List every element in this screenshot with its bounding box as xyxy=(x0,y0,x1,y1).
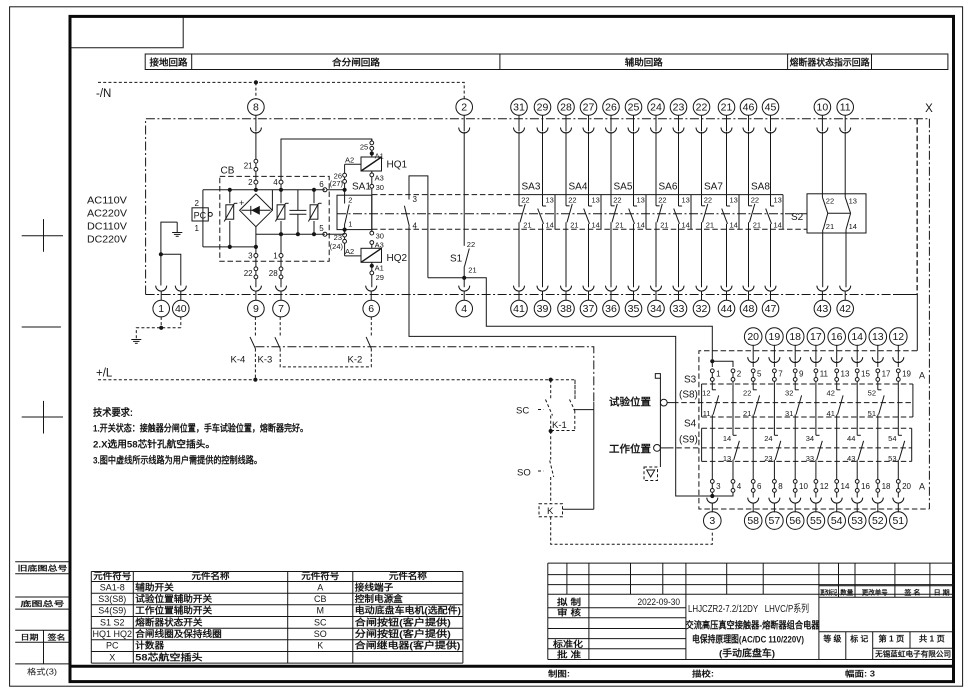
svg-text:25: 25 xyxy=(628,101,640,113)
svg-text:S1 S2: S1 S2 xyxy=(100,617,125,627)
holding coil HQ2 xyxy=(361,231,408,287)
terminal X:7 (plug pin) xyxy=(276,286,287,301)
terminal X:22 (plug pin) xyxy=(693,99,710,116)
relay contact K-4 xyxy=(231,317,256,380)
svg-text:31: 31 xyxy=(785,409,793,418)
terminal X:28 (plug pin) xyxy=(558,99,575,116)
svg-text:14: 14 xyxy=(682,221,690,230)
svg-text:PC: PC xyxy=(194,210,207,220)
svg-text:22: 22 xyxy=(743,389,751,398)
svg-text:21: 21 xyxy=(706,221,714,230)
net -/N bus xyxy=(96,82,464,100)
relay contact K-3 xyxy=(258,317,372,367)
svg-text:K-4: K-4 xyxy=(231,354,246,365)
pin 1 xyxy=(710,369,721,381)
svg-text:51: 51 xyxy=(868,409,876,418)
CB pin 2 xyxy=(248,178,258,190)
svg-text:辅助回路: 辅助回路 xyxy=(625,56,664,67)
CB pin 3 xyxy=(248,247,258,267)
junction on -/N bus xyxy=(254,80,258,84)
svg-text:2: 2 xyxy=(348,196,352,205)
svg-text:SA1: SA1 xyxy=(352,182,371,193)
wire K coil to relay line xyxy=(563,508,594,510)
pin 13 xyxy=(835,369,850,381)
control power box CB (dashed outline) xyxy=(220,176,329,261)
pin 9 xyxy=(793,369,804,381)
svg-text:AC220V: AC220V xyxy=(87,209,127,220)
svg-text:1: 1 xyxy=(348,220,352,229)
plug X boundary (dash-dot) xyxy=(925,103,933,509)
wire CB pin1 to terminal 7 xyxy=(280,279,282,287)
svg-text:SO: SO xyxy=(314,629,327,639)
net label supply voltages xyxy=(87,196,127,246)
svg-text:58: 58 xyxy=(747,515,759,527)
wire S1 node to matrix pins 1/2 (wire B) xyxy=(428,278,712,359)
CB pin 5 xyxy=(319,224,327,236)
wire xyxy=(815,361,817,367)
svg-text:16: 16 xyxy=(861,482,870,491)
terminal X:42 (plug pin) xyxy=(840,286,851,301)
S4 row wire (work position) xyxy=(668,447,912,449)
wire pins 1/2 tie xyxy=(712,361,733,367)
pin 3 xyxy=(710,480,721,493)
svg-text:审 核: 审 核 xyxy=(557,607,582,617)
relay contact K-2 xyxy=(348,317,372,365)
terminal X:19 (plug pin) xyxy=(766,328,784,346)
svg-text:21: 21 xyxy=(244,162,253,171)
wire xyxy=(836,492,838,497)
svg-text:4: 4 xyxy=(273,178,278,187)
svg-text:4: 4 xyxy=(737,482,742,491)
svg-text:28: 28 xyxy=(269,269,278,278)
svg-text:+: + xyxy=(239,198,244,208)
svg-text:19: 19 xyxy=(769,331,781,343)
svg-text:K: K xyxy=(317,641,323,651)
ground (protective earth) xyxy=(172,222,182,236)
wire pins 3/4 tie xyxy=(710,492,733,496)
svg-text:(手动底盘车): (手动底盘车) xyxy=(719,648,775,660)
svg-text:(27): (27) xyxy=(330,179,344,188)
svg-text:S3(S8): S3(S8) xyxy=(98,594,126,604)
svg-text:3: 3 xyxy=(709,515,715,527)
relay line vertical xyxy=(593,402,595,509)
junction RV2 bottom rail xyxy=(279,232,283,236)
svg-text:33: 33 xyxy=(673,303,685,315)
svg-text:元件名称: 元件名称 xyxy=(192,570,230,581)
terminal X:10 (plug pin) xyxy=(814,99,831,116)
svg-text:合闸按钮(客户提供): 合闸按钮(客户提供) xyxy=(355,616,451,627)
capacitor C1 xyxy=(289,190,306,234)
wire xyxy=(897,492,899,497)
position switch S4 contact 34/33 xyxy=(806,434,823,479)
terminal X:57 (plug pin) xyxy=(769,498,780,513)
svg-text:S4: S4 xyxy=(684,419,697,430)
terminal X:39 (plug pin) xyxy=(537,286,548,301)
svg-text:6: 6 xyxy=(757,482,762,491)
plug-in points wire 28 xyxy=(279,267,283,279)
svg-text:熔断器状态指示回路: 熔断器状态指示回路 xyxy=(790,56,871,67)
terminal X:56 (plug pin) xyxy=(790,498,801,513)
wire terminal 8 to CB pin 2 xyxy=(255,132,257,181)
svg-text:32: 32 xyxy=(785,389,793,398)
svg-text:合闸继电器(客户提供): 合闸继电器(客户提供) xyxy=(355,640,461,651)
position switch S4 contact 14/13 xyxy=(723,434,740,479)
terminal X:46 (plug pin) xyxy=(740,99,757,116)
svg-text:2.X选用58芯针孔航空插头。: 2.X选用58芯针孔航空插头。 xyxy=(93,439,215,451)
wire SA1 to HQ2 A2 xyxy=(345,255,361,257)
svg-text:-/N: -/N xyxy=(96,88,111,100)
auxiliary contact 3/4 xyxy=(404,176,428,278)
svg-text:分闸按钮(客户提供): 分闸按钮(客户提供) xyxy=(355,628,451,639)
technical notes xyxy=(93,406,308,467)
junction RV1 bottom xyxy=(228,245,232,249)
svg-text:35: 35 xyxy=(628,303,640,315)
svg-text:SA1-8: SA1-8 xyxy=(100,582,125,592)
position switch S3 contact 22/21 xyxy=(743,389,760,480)
terminal X:1 (plug pin) xyxy=(156,286,167,301)
svg-text:标准化: 标准化 xyxy=(552,639,584,649)
svg-text:制图:: 制图: xyxy=(548,669,570,679)
svg-text:10: 10 xyxy=(817,101,829,113)
terminal X:29 (plug pin) xyxy=(534,99,551,116)
svg-text:13: 13 xyxy=(637,195,645,204)
svg-text:日期: 日期 xyxy=(21,632,39,641)
svg-text:格式(3): 格式(3) xyxy=(27,666,57,676)
wire bridge bottom / rails xyxy=(203,227,325,247)
svg-text:42: 42 xyxy=(827,389,835,398)
closing button SC (customer) xyxy=(516,380,553,431)
junction RV3 top xyxy=(312,188,316,192)
svg-text:S3: S3 xyxy=(684,375,697,386)
CB pin 1 xyxy=(273,234,283,267)
svg-text:21: 21 xyxy=(721,101,733,113)
terminal X:18 (plug pin) xyxy=(786,328,804,346)
junction C1 bottom xyxy=(296,232,300,236)
wire xyxy=(877,361,879,367)
svg-text:14: 14 xyxy=(851,331,863,343)
svg-text:16: 16 xyxy=(831,331,843,343)
pin 6 xyxy=(751,480,762,493)
wire xyxy=(877,492,879,497)
wire xyxy=(856,381,858,435)
svg-text:13: 13 xyxy=(841,369,850,378)
svg-text:无锡蓝虹电子有限公司: 无锡蓝虹电子有限公司 xyxy=(874,648,951,658)
wire xyxy=(815,381,817,435)
label S4 (S9) xyxy=(679,419,698,446)
svg-text:7: 7 xyxy=(778,369,783,378)
terminal X:40 (plug pin) xyxy=(175,286,186,301)
svg-text:30: 30 xyxy=(376,183,384,192)
auxiliary switch SA3 xyxy=(519,132,555,288)
wire xyxy=(732,492,734,496)
junction SC/K-1 bottom xyxy=(549,429,553,433)
pin 2 xyxy=(731,369,742,381)
svg-text:更改标记: 更改标记 xyxy=(820,587,837,596)
svg-text:14: 14 xyxy=(841,482,850,491)
svg-text:52: 52 xyxy=(868,389,876,398)
svg-text:13: 13 xyxy=(546,195,554,204)
svg-text:15: 15 xyxy=(861,369,870,378)
terminal X:8 (plug pin) xyxy=(248,99,265,116)
terminal X:14 (plug pin) xyxy=(848,328,866,346)
svg-text:21: 21 xyxy=(468,265,476,274)
terminal X:16 (plug pin) xyxy=(828,328,846,346)
svg-text:2022-09-30: 2022-09-30 xyxy=(638,597,681,608)
svg-text:(24): (24) xyxy=(330,242,344,251)
wire xyxy=(711,492,713,495)
terminal X:25 (plug pin) xyxy=(625,99,642,116)
svg-text:控制电源盒: 控制电源盒 xyxy=(355,593,404,604)
pin 16 xyxy=(855,480,870,493)
svg-text:9: 9 xyxy=(253,303,259,315)
pin 11 xyxy=(814,369,829,381)
junction SA1 bottom xyxy=(343,228,347,232)
svg-text:标 记: 标 记 xyxy=(849,634,868,644)
wire xyxy=(752,492,754,497)
svg-text:AC110V: AC110V xyxy=(87,196,127,207)
position reference (dashed box) xyxy=(644,467,658,481)
svg-text:旧底图总号: 旧底图总号 xyxy=(18,564,68,573)
pin 7 xyxy=(773,369,784,381)
svg-text:SA4: SA4 xyxy=(569,182,588,193)
junction S1 bottom xyxy=(462,276,466,280)
svg-text:3: 3 xyxy=(413,195,418,204)
terminal X:51 (plug pin) xyxy=(893,498,904,513)
svg-text:12: 12 xyxy=(820,482,829,491)
pin 10 xyxy=(793,480,808,493)
position switch S4 contact 54/53 xyxy=(888,434,905,479)
svg-text:41: 41 xyxy=(513,303,525,315)
svg-text:44: 44 xyxy=(721,303,733,315)
svg-text:18: 18 xyxy=(882,482,891,491)
position switch S3 contact 42/41 xyxy=(827,389,844,480)
wire bridge right vertex to top rail xyxy=(271,190,273,211)
svg-text:DC220V: DC220V xyxy=(87,235,127,246)
svg-text:18: 18 xyxy=(789,331,801,343)
junction CB pin4 xyxy=(279,188,283,192)
wire xyxy=(856,492,858,497)
pin 4 xyxy=(731,480,742,493)
svg-text:试验位置: 试验位置 xyxy=(609,396,651,409)
svg-text:第 1 页: 第 1 页 xyxy=(878,634,904,644)
wire CB pin6 to SA1 xyxy=(327,189,345,191)
svg-text:51: 51 xyxy=(892,515,904,527)
position switch S4 contact 24/23 xyxy=(764,434,781,479)
svg-text:幅面: 3: 幅面: 3 xyxy=(845,669,876,679)
auxiliary switch SA7 xyxy=(702,132,740,288)
svg-text:44: 44 xyxy=(847,434,855,443)
svg-text:SA5: SA5 xyxy=(614,182,633,193)
wire xyxy=(836,381,838,390)
svg-text:42: 42 xyxy=(839,303,851,315)
terminal X:58 (plug pin) xyxy=(748,498,759,513)
svg-text:54: 54 xyxy=(831,515,843,527)
closing relay coil K (customer) xyxy=(539,504,563,517)
wire xyxy=(794,361,796,367)
junction +/L to SC xyxy=(549,378,553,382)
svg-text:30: 30 xyxy=(376,232,384,241)
mechanical linkage to K contacts (dash-dot) xyxy=(255,347,593,402)
svg-text:M: M xyxy=(317,606,325,616)
terminal X:2 (plug pin) xyxy=(456,99,473,116)
svg-text:+/L: +/L xyxy=(96,368,113,380)
junction HQ1 A1 xyxy=(370,151,374,155)
svg-text:2: 2 xyxy=(248,178,253,187)
svg-text:计数器: 计数器 xyxy=(135,640,165,651)
wire xyxy=(732,381,734,435)
terminal X:43 (plug pin) xyxy=(817,286,828,301)
terminal X:31 (plug pin) xyxy=(511,99,528,116)
wire xyxy=(773,361,775,367)
svg-text:21: 21 xyxy=(615,221,623,230)
wire (dashed) terminals 1/40 to external earth xyxy=(136,317,181,339)
svg-text:SC: SC xyxy=(516,405,529,416)
terminal X:11 (plug pin) xyxy=(837,99,854,116)
terminal X:24 (plug pin) xyxy=(648,99,665,116)
svg-text:11: 11 xyxy=(840,101,851,113)
svg-text:54: 54 xyxy=(888,434,896,443)
wire A: contact 3/4 to position switch common xyxy=(409,226,710,496)
svg-text:7: 7 xyxy=(278,303,284,315)
wire xyxy=(752,361,754,367)
svg-text:8: 8 xyxy=(778,482,783,491)
pin 20 xyxy=(896,480,911,493)
terminal X:55 (plug pin) xyxy=(810,498,821,513)
svg-text:22: 22 xyxy=(658,195,666,204)
svg-text:12: 12 xyxy=(702,389,710,398)
terminal X:45 (plug pin) xyxy=(762,99,779,116)
svg-text:接地回路: 接地回路 xyxy=(150,56,189,67)
svg-text:53: 53 xyxy=(851,515,863,527)
terminal X:48 (plug pin) xyxy=(743,286,754,301)
svg-text:电动底盘车电机(选配件): 电动底盘车电机(选配件) xyxy=(355,605,461,616)
terminal X:52 (plug pin) xyxy=(872,498,883,513)
svg-text:22: 22 xyxy=(613,195,621,204)
svg-text:58芯航空插头: 58芯航空插头 xyxy=(135,651,202,662)
svg-text:PC: PC xyxy=(106,641,119,651)
svg-text:22: 22 xyxy=(467,240,475,249)
svg-text:12: 12 xyxy=(892,331,904,343)
wire xyxy=(815,492,817,497)
terminal X:47 (plug pin) xyxy=(765,286,776,301)
svg-text:29: 29 xyxy=(537,101,549,113)
svg-text:辅助开关: 辅助开关 xyxy=(135,581,173,592)
svg-text:22: 22 xyxy=(826,196,834,205)
rectifier bridge xyxy=(239,194,272,227)
svg-text:K-3: K-3 xyxy=(258,354,273,365)
svg-text:34: 34 xyxy=(650,303,662,315)
svg-text:A: A xyxy=(919,482,925,492)
terminal X:21 (plug pin) xyxy=(718,99,735,116)
svg-text:31: 31 xyxy=(513,101,525,113)
svg-text:55: 55 xyxy=(810,515,822,527)
svg-text:24: 24 xyxy=(650,101,662,113)
terminal X:20 (plug pin) xyxy=(744,328,762,346)
svg-text:电保持原理图(AC/DC 110/220V): 电保持原理图(AC/DC 110/220V) xyxy=(692,633,804,645)
svg-text:(S8): (S8) xyxy=(679,390,698,401)
CB pin 4 and wire to HQ coils xyxy=(273,139,372,190)
external ground symbol xyxy=(131,340,141,344)
terminal X:26 (plug pin) xyxy=(603,99,620,116)
svg-text:37: 37 xyxy=(583,303,595,315)
wire xyxy=(773,381,775,435)
CB internal top rail xyxy=(203,189,325,191)
auxiliary switch SA5 xyxy=(611,132,646,288)
terminal X:53 (plug pin) xyxy=(852,498,863,513)
terminal X:44 (plug pin) xyxy=(721,286,732,301)
svg-text:41: 41 xyxy=(827,409,835,418)
plug-in points wire 26(27) xyxy=(330,164,347,190)
relay self-hold contact K-1 xyxy=(551,380,575,431)
svg-text:A1: A1 xyxy=(375,263,384,272)
junction at ground wire xyxy=(159,252,163,256)
wire ground to terminals 1/40 xyxy=(161,222,181,285)
junction HQ2 A1 xyxy=(370,264,374,268)
auxiliary switch SA8 xyxy=(749,132,784,288)
svg-text:(S9): (S9) xyxy=(679,435,698,446)
svg-text:拟 制: 拟 制 xyxy=(557,597,582,607)
svg-text:14: 14 xyxy=(774,221,782,230)
svg-text:元件符号: 元件符号 xyxy=(301,570,339,581)
matrix enclosure (dashed) xyxy=(699,351,930,509)
terminal X:9 (plug pin) xyxy=(250,286,261,301)
svg-text:23: 23 xyxy=(673,101,685,113)
svg-text:24: 24 xyxy=(764,434,772,443)
svg-text:等 级: 等 级 xyxy=(822,634,842,644)
svg-text:39: 39 xyxy=(537,303,549,315)
junction +/L to K-4 xyxy=(253,378,257,382)
plug-in points wire 23(24) xyxy=(330,233,347,256)
svg-text:22: 22 xyxy=(751,195,759,204)
svg-text:合闸线圈及保持线圈: 合闸线圈及保持线圈 xyxy=(135,628,221,639)
svg-text:14: 14 xyxy=(849,222,857,231)
varistor RV1 xyxy=(224,190,237,247)
terminal X:4 (plug pin) xyxy=(459,286,470,301)
svg-text:17: 17 xyxy=(810,331,822,343)
svg-text:签名: 签名 xyxy=(46,632,65,641)
svg-text:A: A xyxy=(317,582,323,592)
svg-text:40: 40 xyxy=(175,303,187,315)
svg-text:22: 22 xyxy=(704,195,712,204)
svg-text:1.开关状态：接触器分闸位置，手车试验位置，熔断器完好。: 1.开关状态：接触器分闸位置，手车试验位置，熔断器完好。 xyxy=(93,423,308,435)
svg-text:14: 14 xyxy=(546,221,554,230)
terminal X:13 (plug pin) xyxy=(869,328,887,346)
svg-text:元件符号: 元件符号 xyxy=(93,570,131,581)
terminal X:17 (plug pin) xyxy=(807,328,825,346)
terminal X:33 (plug pin) xyxy=(673,286,684,301)
auxiliary switch SA6 xyxy=(656,132,691,288)
wire xyxy=(856,361,858,367)
svg-text:25: 25 xyxy=(360,143,368,152)
svg-text:A3: A3 xyxy=(375,174,384,183)
terminal X:27 (plug pin) xyxy=(580,99,597,116)
svg-text:20: 20 xyxy=(747,331,759,343)
svg-text:2: 2 xyxy=(195,199,200,208)
svg-text:HQ2: HQ2 xyxy=(387,253,408,264)
fuse state switch S1 xyxy=(450,132,477,288)
wire xyxy=(836,361,838,367)
junction RV1 top xyxy=(228,188,232,192)
svg-text:10: 10 xyxy=(799,482,808,491)
svg-text:A2: A2 xyxy=(345,247,354,256)
terminal X:35 (plug pin) xyxy=(628,286,639,301)
svg-text:21: 21 xyxy=(743,409,751,418)
plug-in points wire 22 xyxy=(254,267,258,279)
junction SA1 top xyxy=(343,188,347,192)
svg-text:技术要求:: 技术要求: xyxy=(93,406,133,419)
svg-text:日 期: 日 期 xyxy=(934,587,951,596)
svg-text:14: 14 xyxy=(637,221,645,230)
